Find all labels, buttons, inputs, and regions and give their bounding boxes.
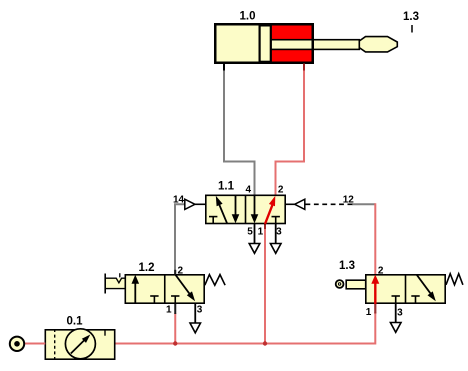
svg-text:1: 1 xyxy=(366,307,372,318)
junction: manifold to valve 1.2 port 1 xyxy=(173,341,177,345)
svg-text:1: 1 xyxy=(258,227,264,238)
junction: manifold to valve 1.1 port 1 xyxy=(263,341,267,345)
valve 1.1 right position: 1 to 2 red flow arrow xyxy=(265,204,273,224)
valve 1.3 roller actuator plunger xyxy=(346,280,366,289)
valve 1.3 right position: blocked port 1 (T) xyxy=(411,295,419,297)
compressed air source xyxy=(10,337,24,351)
valve 1.1 body xyxy=(206,195,285,223)
valve 1.3 body xyxy=(366,275,445,303)
valve 1.1 right position: blocked port 3 (T) xyxy=(272,216,280,218)
cylinder 1.0 body border xyxy=(215,24,313,63)
unit 0.1 gauge circle xyxy=(65,329,95,359)
valve 1.1 divider xyxy=(245,195,247,225)
wire: valve 1.2 port 1 down to supply manifold (red) xyxy=(174,313,176,344)
valve 1.2 port 2 stub xyxy=(174,270,176,275)
svg-text:14: 14 xyxy=(173,194,185,205)
exhaust: valve 1.2 port 3 silencer triangle xyxy=(194,304,196,323)
wire: cylinder right port to valve 1.1 port 2 (red) xyxy=(276,70,305,195)
cylinder 1.0 left chamber xyxy=(216,25,260,62)
valve 1.3 return spring xyxy=(446,274,463,285)
svg-text:3: 3 xyxy=(276,227,282,238)
unit 0.1 gauge needle xyxy=(71,339,86,354)
svg-text:1.0: 1.0 xyxy=(240,11,256,23)
exhaust: valve 1.3 port 3 silencer triangle xyxy=(395,304,397,322)
valve 1.2 right position: blocked port 1 (T) xyxy=(171,295,179,297)
unit 0.1 filter dashed line xyxy=(54,329,56,360)
cylinder 1.0 piston rod xyxy=(271,40,360,50)
valve 1.1 pilot 14 (left) xyxy=(195,203,206,205)
stub: valve 1.3 port 1 (dark red) xyxy=(374,304,376,314)
valve 1.1 left position: 2 to 3 down arrow xyxy=(235,195,237,216)
svg-text:2: 2 xyxy=(378,265,384,276)
valve 1.3 left position: blocked port 3 (T) xyxy=(392,295,400,297)
svg-text:2: 2 xyxy=(278,184,284,195)
svg-text:3: 3 xyxy=(197,305,203,316)
valve 1.2 return spring xyxy=(205,275,225,286)
svg-text:0.1: 0.1 xyxy=(67,315,84,327)
svg-text:1.3: 1.3 xyxy=(339,260,355,272)
stub: valve 1.1 port 1 xyxy=(264,224,266,229)
exhaust: valve 1.1 port 3 silencer triangle xyxy=(275,224,277,243)
cylinder 1.0 piston xyxy=(260,25,271,61)
wire: valve 1.1 port 1 down to supply manifold (red) xyxy=(264,228,266,344)
svg-text:3: 3 xyxy=(397,308,403,319)
valve 1.3 roller wheel xyxy=(336,280,344,288)
exhaust: valve 1.1 port 5 silencer triangle xyxy=(254,224,256,243)
cylinder 1.0 right port stub xyxy=(303,64,305,71)
svg-text:1.2: 1.2 xyxy=(139,262,155,274)
valve 1.3 left position: 1 to 2 red flow arrow xyxy=(374,282,376,304)
valve 1.3 right position: 2 to 3 diagonal arrow xyxy=(417,275,432,295)
unit 0.1 body xyxy=(45,330,114,359)
unit 0.1 vent tick xyxy=(104,329,106,336)
cylinder 1.0 left port stub xyxy=(223,64,225,71)
cylinder 1.0 rod end knob xyxy=(359,37,397,52)
svg-text:1.1: 1.1 xyxy=(218,181,235,193)
valve 1.2 right position: 2 to 3 diagonal arrow xyxy=(175,275,190,295)
wire: pilot 12 corner segment (gray) xyxy=(352,203,375,205)
cylinder 1.0 right chamber (pressurized, red) xyxy=(272,25,313,62)
valve 1.2 detent actuator xyxy=(105,278,124,288)
stub: valve 1.2 port 1 (black) xyxy=(174,304,176,314)
svg-text:4: 4 xyxy=(246,184,252,195)
svg-text:2: 2 xyxy=(178,265,184,276)
svg-text:1.3: 1.3 xyxy=(403,11,419,23)
svg-text:1: 1 xyxy=(166,305,172,316)
svg-text:5: 5 xyxy=(247,227,253,238)
valve 1.1 right position: 4 to 5 down arrow xyxy=(254,195,256,216)
svg-text:12: 12 xyxy=(343,194,355,205)
valve 1.2 left position: blocked port 3 (T) xyxy=(150,295,158,297)
wire: pilot 12 dashed control line xyxy=(306,203,353,205)
wire: pilot 12 corner down to valve 1.3 port 2 (red) xyxy=(374,203,376,274)
valve 1.1 pilot 12 (right) xyxy=(285,203,294,205)
valve 1.3 divider xyxy=(405,274,407,304)
valve 1.1 left position: blocked port 5 (T) xyxy=(209,216,217,218)
valve 1.2 divider xyxy=(164,274,166,304)
valve 1.1 left position: 1 to 4 diagonal arrow xyxy=(219,204,227,223)
wire: supply manifold from unit 0.1 to below valve 1.3 (red) xyxy=(116,312,376,344)
wire: cylinder left port to valve 1.1 port 4 (gray) xyxy=(224,66,255,195)
wire: compressed air source to unit 0.1 (red) xyxy=(24,343,46,345)
valve 1.2 left position: 1 to 2 up arrow xyxy=(134,282,136,304)
wire: valve 1.2 port 2 up to pilot 14 of valve 1.1 (gray) xyxy=(175,204,185,274)
valve 1.2 body xyxy=(125,275,204,303)
